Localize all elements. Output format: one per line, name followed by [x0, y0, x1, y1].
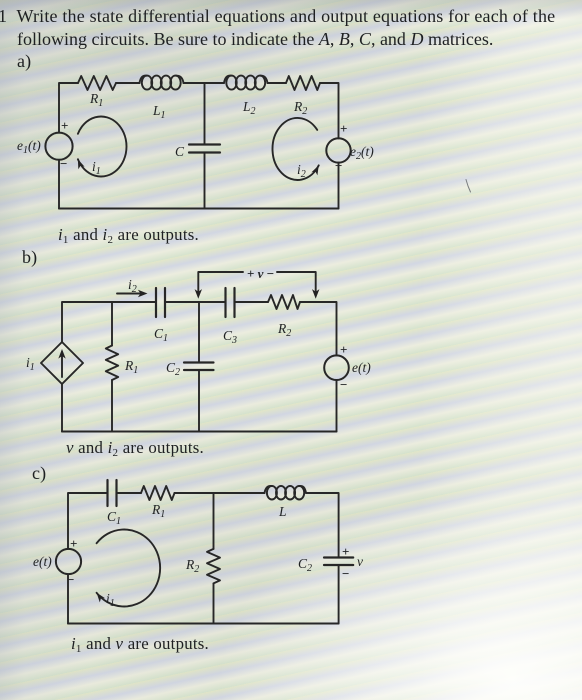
svg-text:e2(t): e2(t): [350, 144, 374, 162]
current source i1 (diamond): [26, 342, 83, 384]
wire: L1 to L2 through node: [184, 82, 225, 84]
header line 1: [0, 6, 555, 27]
svg-text:R1: R1: [89, 91, 103, 109]
svg-text:R1: R1: [151, 502, 165, 520]
resistor R2 (circuit b): [268, 295, 300, 339]
mesh current i1 arrow (circuit c): [94, 529, 160, 609]
voltage source e(t) (circuit b): [324, 342, 371, 392]
capacitor C: [175, 144, 220, 159]
svg-text:e1(t): e1(t): [17, 138, 41, 156]
wire: below e(t) to bottom-left corner: [67, 574, 69, 623]
capacitor C3: [223, 288, 237, 346]
resistor R1 branch (circuit b): [106, 302, 138, 432]
voltage label bracket +v-: [195, 266, 320, 299]
svg-text:v: v: [357, 554, 363, 569]
svg-text:L2: L2: [242, 99, 256, 117]
wire: circuit b top-left segment: [62, 302, 156, 342]
wire: below e2 to bottom-right corner: [338, 163, 340, 209]
caption b: [66, 438, 204, 458]
wire: L to top-right corner: [306, 493, 339, 557]
capacitor C2 branch (circuit b): [166, 302, 214, 432]
label a): [17, 51, 31, 72]
wire: circuit c top-left segment: [68, 493, 108, 549]
wire: bottom of circuit b: [62, 431, 337, 433]
svg-text:L1: L1: [152, 103, 166, 121]
svg-text:R1: R1: [124, 358, 138, 376]
wire: below C2 to bottom-right corner: [338, 566, 340, 624]
caption a: [58, 225, 199, 245]
resistor R2 branch (circuit c): [185, 493, 220, 624]
svg-text:+: +: [342, 544, 349, 559]
capacitor C2 branch (circuit c): [298, 544, 363, 581]
resistor R1: [78, 76, 116, 109]
capacitor C1 (circuit c): [107, 480, 121, 527]
svg-text:i1: i1: [26, 355, 35, 373]
label c): [32, 463, 46, 484]
inductor L1: [140, 76, 184, 121]
wire: C3 to R2: [235, 301, 269, 303]
svg-text:C1: C1: [107, 509, 121, 527]
wire: C1 to C3 through node: [165, 301, 226, 303]
svg-text:C: C: [175, 144, 185, 159]
inductor L2: [224, 76, 268, 117]
wire: below e1 to bottom-left corner: [58, 160, 60, 209]
svg-text:+: +: [340, 342, 347, 357]
svg-text:i2: i2: [128, 277, 137, 295]
svg-text:i1: i1: [106, 591, 115, 609]
svg-text:+: +: [61, 118, 68, 133]
current arrow i2 (circuit b): [117, 277, 148, 297]
wire: bottom of circuit a: [59, 208, 339, 210]
capacitor C1: [154, 288, 168, 344]
wire: between R1 and L1: [116, 82, 140, 84]
voltage source e2(t): [326, 121, 374, 173]
voltage source e(t) (circuit c): [33, 536, 81, 587]
svg-text:L: L: [278, 504, 287, 519]
svg-text:R2: R2: [277, 321, 291, 339]
wire: below e(t) to bottom-right corner: [336, 380, 338, 432]
svg-text:C2: C2: [298, 556, 312, 574]
mesh current i1 arrow: [75, 117, 127, 178]
inductor L: [265, 486, 307, 519]
svg-text:e(t): e(t): [33, 554, 52, 569]
svg-text:R2: R2: [293, 99, 307, 117]
wire: circuit a top-left segment: [59, 83, 78, 133]
label b): [22, 247, 37, 268]
caption c: [71, 634, 209, 654]
svg-text:C2: C2: [166, 360, 180, 378]
mesh current i2 arrow: [272, 118, 321, 180]
svg-text:C1: C1: [154, 326, 168, 344]
voltage source e1(t): [17, 118, 73, 171]
svg-text:+: +: [70, 536, 77, 551]
wire: below C to bottom wire: [204, 153, 206, 209]
svg-text:+ v −: + v −: [247, 266, 274, 281]
wire: between L2 and R2: [268, 82, 287, 84]
wire: C1 to R1: [117, 492, 142, 494]
header line 2: [17, 29, 493, 50]
wire: R2 to top-right corner: [300, 302, 337, 355]
svg-text:+: +: [340, 121, 347, 136]
svg-text:C3: C3: [223, 328, 237, 346]
svg-text:i2: i2: [297, 162, 306, 180]
svg-text:−: −: [60, 156, 67, 171]
wire: below diamond to bottom-left corner: [61, 384, 63, 432]
resistor R1 (circuit c): [141, 486, 175, 520]
wire: bottom of circuit c: [68, 623, 339, 625]
stray pen mark: [466, 180, 471, 193]
node: capacitor branch junction: [204, 83, 206, 144]
svg-text:−: −: [340, 377, 347, 392]
wire: R1 to L through node: [175, 492, 265, 494]
resistor R2: [286, 76, 320, 117]
svg-text:R2: R2: [185, 557, 199, 575]
svg-text:−: −: [342, 566, 349, 581]
svg-text:e(t): e(t): [352, 360, 371, 375]
wire: top-right corner to e2: [320, 83, 339, 138]
